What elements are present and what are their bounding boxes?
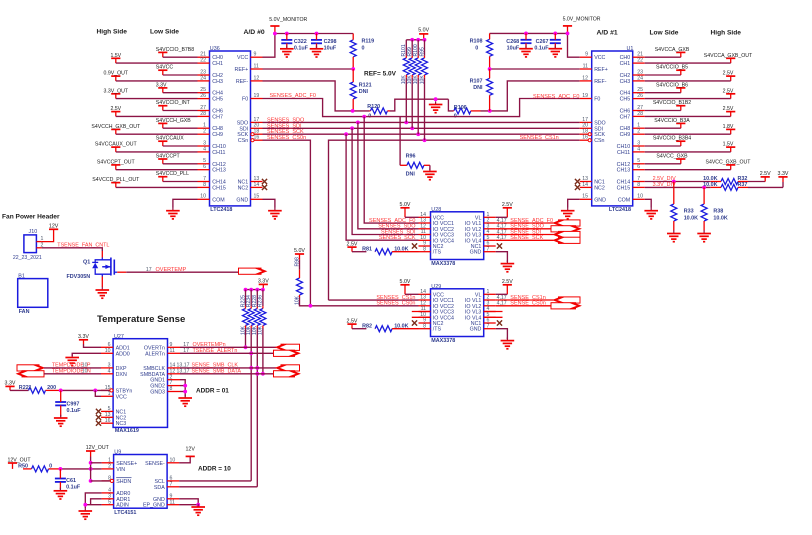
svg-text:Low Side: Low Side	[650, 30, 679, 37]
capacitor C268 10uF	[521, 39, 532, 41]
ground at U36 COM	[172, 208, 174, 211]
svg-text:COM: COM	[618, 197, 630, 203]
off-page connector SENSE_CS1n	[559, 297, 581, 303]
junction tie R95	[423, 38, 427, 42]
svg-text:R107: R107	[470, 79, 483, 85]
wire R221 to STBYn	[61, 389, 110, 391]
svg-text:C298: C298	[324, 39, 337, 45]
svg-text:CH15: CH15	[617, 185, 631, 191]
svg-text:S4VCCA_GXB: S4VCCA_GXB	[655, 47, 690, 53]
resistor R234 10K	[250, 290, 252, 307]
svg-text:MAX1619: MAX1619	[115, 428, 139, 434]
svg-text:22_23_2021: 22_23_2021	[13, 255, 42, 261]
wire Q1 source to ground	[101, 277, 103, 288]
off-page connector OVERTEMPn	[281, 344, 300, 350]
resistor R225 10K	[245, 290, 247, 307]
svg-text:REF-: REF-	[236, 79, 249, 85]
junction OVERTEMPn pullup	[244, 345, 248, 349]
wire 3.3V_OUT to U36 CH5	[116, 98, 198, 100]
svg-text:COM: COM	[212, 197, 224, 203]
svg-text:10uF: 10uF	[324, 46, 337, 52]
svg-text:10K: 10K	[294, 295, 300, 305]
svg-text:A/D #1: A/D #1	[597, 30, 618, 37]
off-page connector SENSE_SDO	[551, 226, 576, 232]
svg-text:CH9: CH9	[212, 132, 223, 138]
power tap S4VCC_GXB_OUT U1 CH13	[726, 164, 735, 166]
power tap 1.8V U1 CH9	[726, 128, 735, 130]
wire SENSE_CS0n to off-page (U29)	[496, 305, 554, 307]
svg-text:3.3V: 3.3V	[5, 381, 16, 387]
svg-text:VCC: VCC	[116, 394, 127, 400]
svg-text:S4VCCAUX: S4VCCAUX	[156, 136, 185, 142]
no-connect X NC1 U28	[497, 243, 502, 248]
wire S4VCC_GXB_OUT U1	[645, 169, 731, 171]
power tap 2.5V U1 CH5	[726, 93, 735, 95]
off-page connector SENSE_SCK	[559, 237, 581, 243]
resistor R101 10K pull-up	[405, 40, 407, 56]
wire SCL to riser	[179, 480, 251, 482]
svg-text:SENSES_CS1n: SENSES_CS1n	[520, 135, 559, 141]
svg-text:High Side: High Side	[711, 30, 742, 37]
junction SMB_DATA pullup	[261, 372, 265, 376]
junction ground tap REF-	[434, 97, 438, 101]
fan B1 box	[18, 279, 48, 308]
svg-text:2.5V: 2.5V	[723, 106, 734, 112]
power tap 2.5V U1 CH3	[726, 75, 735, 77]
power symbol 3.3V (U27 ADD1)	[79, 339, 88, 341]
wire U27 GND tie	[180, 380, 185, 397]
wire ADD0 to ground	[72, 353, 101, 356]
power tap S4VCCAUX_OUT to CH11 U36	[111, 146, 120, 148]
svg-text:MAX3378: MAX3378	[431, 261, 455, 267]
svg-text:CSn: CSn	[594, 138, 604, 144]
svg-text:CH7: CH7	[620, 114, 631, 120]
power tap S4VCCIO_B6 U1 CH4	[676, 87, 685, 89]
svg-text:CH1: CH1	[620, 61, 631, 67]
svg-text:200: 200	[47, 385, 56, 391]
no-connect X NC1 U1	[575, 179, 580, 184]
no-connect X NC2 U1	[575, 185, 580, 190]
svg-text:R100: R100	[413, 44, 419, 56]
off-page connector SENSE_SMB_DATA	[274, 371, 295, 377]
svg-text:CH3: CH3	[620, 79, 631, 85]
junction R121 bottom	[351, 109, 355, 113]
wire 12V_OUT riser U9	[90, 457, 92, 481]
power tap S4VCCIO_B3A U1 CH8	[676, 122, 685, 124]
svg-text:CH11: CH11	[212, 150, 225, 156]
svg-text:REF-: REF-	[594, 79, 607, 85]
junction EP_GND	[196, 503, 200, 507]
power tap 2.5V to CH7 U36	[111, 111, 120, 113]
power tap S4VCCIO_B3B4 U1 CH10	[676, 140, 685, 142]
resistor R120 0	[370, 108, 387, 114]
wire U36 COM to ground	[173, 199, 198, 207]
junction C322 top	[285, 32, 289, 36]
svg-text:EP_GND: EP_GND	[143, 503, 165, 509]
wire S4VCCD_PLL to U36 CH14	[163, 181, 198, 183]
wire 2.5V_DIV row	[645, 181, 711, 183]
svg-text:S4VCCIO_B3B4: S4VCCIO_B3B4	[653, 136, 691, 142]
svg-text:S4VCCPT: S4VCCPT	[156, 154, 181, 160]
svg-text:2.5V: 2.5V	[347, 318, 358, 324]
svg-text:R50: R50	[18, 463, 28, 469]
wire SENSES_CS1n into U29	[329, 299, 419, 301]
wire R120 to ground tap	[390, 99, 448, 111]
resistor R99 10K pull-up	[411, 40, 413, 56]
svg-text:R98: R98	[294, 257, 300, 267]
junction REF+ R119/R121	[351, 67, 355, 71]
svg-text:S4VCCIO_B7B8: S4VCCIO_B7B8	[156, 47, 194, 53]
power tap S4VCCIO_INT to CH6 U36	[158, 105, 167, 107]
svg-text:LTC2418: LTC2418	[609, 207, 631, 213]
wire S4VCCPT to U36 CH12	[163, 163, 198, 165]
wire bare stub pin11 U29	[412, 311, 431, 313]
svg-text:3.3V: 3.3V	[258, 279, 269, 285]
wire S4VCCIO_B1B2 U1	[645, 110, 681, 112]
wire VCC riser U27	[95, 390, 101, 396]
wire S4VCCIO_B7B8 to U36 CH0	[163, 56, 198, 58]
wire SHDN from riser	[91, 480, 110, 482]
ground at C997	[60, 415, 62, 418]
svg-text:ADIN: ADIN	[116, 503, 129, 509]
svg-text:S4VCC: S4VCC	[156, 65, 174, 71]
resistor R96 DNI	[399, 117, 401, 166]
power symbol 5.0V_MONITOR (left)	[270, 25, 279, 27]
svg-text:NC2: NC2	[594, 185, 605, 191]
svg-text:CH13: CH13	[212, 168, 226, 174]
wire R228/SDA vertical	[256, 328, 258, 487]
svg-text:OVERTEMP: OVERTEMP	[156, 267, 187, 273]
wire S4VCCA_GXB_OUT U1	[645, 62, 731, 64]
svg-text:1.5V: 1.5V	[723, 142, 734, 148]
off-page connector SENSE_CS0n	[551, 303, 576, 309]
wire S4VCC to U36 CH2	[163, 74, 198, 76]
resistor R106 0	[454, 108, 471, 114]
power symbol 5.0V (U29 VCC)	[400, 284, 409, 286]
wire S4VCCA_GXB U1	[645, 56, 681, 58]
power symbol 2.5V (R32)	[761, 176, 770, 178]
power tap 3.3V_OUT to CH5 U36	[111, 93, 120, 95]
op-amp U36 box (LTC2418 A/D #0)	[210, 51, 251, 206]
wire OVERTEMPn row	[180, 346, 276, 348]
junction SMB_DATA tap	[255, 372, 259, 376]
ground at U27 GND	[184, 395, 186, 398]
svg-text:SENSES_CS0n: SENSES_CS0n	[267, 135, 306, 141]
junction SMB_CLK pullup	[255, 366, 259, 370]
junction C298 top	[315, 32, 319, 36]
junction tie R225	[244, 288, 248, 292]
svg-text:R121: R121	[359, 83, 372, 89]
svg-text:R38: R38	[713, 208, 723, 214]
ground at R96	[429, 168, 431, 171]
wire bare stub pin4 U29	[484, 311, 503, 313]
junction SMB_CLK tap	[249, 366, 253, 370]
power tap S4VCCPT to CH12 U36	[158, 158, 167, 160]
junction VIN riser	[89, 467, 93, 471]
junction SDO pullup	[404, 121, 408, 125]
svg-text:C997: C997	[67, 401, 80, 407]
wire U1 GND to ground	[568, 199, 580, 207]
wire 17 OVERTEMP	[117, 271, 126, 273]
svg-text:NC2: NC2	[238, 185, 249, 191]
power tap 2.5V U1 CH7	[726, 111, 735, 113]
svg-text:GND: GND	[470, 327, 482, 333]
junction SHDN riser	[89, 479, 93, 483]
svg-text:F0: F0	[242, 97, 248, 103]
power symbol 2.5V (U29 VL)	[503, 284, 512, 286]
ground at C298	[316, 46, 318, 49]
junction tie R234	[249, 288, 253, 292]
svg-text:U27: U27	[114, 334, 124, 340]
svg-text:R37: R37	[738, 182, 748, 188]
svg-text:Q1: Q1	[83, 260, 90, 266]
transistor Q1 FDV305N	[110, 258, 112, 276]
svg-text:R221: R221	[19, 385, 32, 391]
svg-text:SENSE_SCK: SENSE_SCK	[510, 235, 543, 241]
svg-text:GND: GND	[236, 197, 248, 203]
power symbol 3.3V (R221)	[5, 385, 14, 387]
power symbol 12V_OUT (R50)	[8, 462, 17, 464]
svg-text:3.3V_OUT: 3.3V_OUT	[104, 88, 129, 94]
svg-text:REF= 5.0V: REF= 5.0V	[364, 71, 397, 78]
svg-text:0.1uF: 0.1uF	[534, 46, 549, 52]
pin bubble CSn U36	[251, 139, 254, 142]
resistor R107 DNI	[487, 78, 493, 95]
wire S4VCCAUX_OUT to U36 CH11	[116, 151, 198, 153]
resistor R81 10.0K	[352, 251, 366, 253]
svg-text:/TS: /TS	[433, 250, 442, 256]
svg-text:12V_OUT: 12V_OUT	[86, 445, 110, 451]
svg-text:R33: R33	[684, 208, 694, 214]
off-page connector TEMPDIODE_N	[22, 371, 44, 377]
wire 5.0V_MONITOR rail (left)	[275, 33, 353, 35]
ground at U9 GND	[197, 504, 199, 507]
svg-text:CH5: CH5	[212, 97, 223, 103]
power symbol 3.3V (R37)	[778, 176, 787, 178]
power tap 1.5V to CH1 U36	[111, 57, 120, 59]
svg-text:13,17: 13,17	[177, 369, 190, 375]
resistor R236 10K	[262, 290, 264, 307]
junction R38 top	[702, 186, 706, 190]
wire 2.5V to U28 VL	[496, 216, 508, 218]
wire U36 VCC riser to 5.0V_MONITOR rail	[263, 34, 275, 58]
wire 2.5V U1	[645, 115, 731, 117]
wire Q1 drain lead	[101, 251, 103, 258]
svg-text:1.8V: 1.8V	[723, 124, 734, 130]
power symbol 2.5V (R81)	[347, 246, 356, 248]
svg-text:CH3: CH3	[212, 79, 223, 85]
wire SENSE_SCK to off-page (U28)	[496, 239, 554, 241]
wire SENSE_SDI to off-page (U28)	[496, 234, 554, 236]
ground at Q1	[101, 287, 103, 290]
svg-text:VIN: VIN	[116, 467, 125, 473]
svg-text:J10: J10	[29, 229, 38, 235]
svg-text:VCC: VCC	[594, 55, 605, 61]
wire 2.5V to U29 VL	[496, 293, 508, 295]
off-page connector TEMPDIODE_P	[17, 365, 39, 371]
wire SENSE_ADC_F0 to off-page (U28)	[496, 222, 554, 224]
connector J10 box	[24, 235, 37, 253]
wire tempsense tie bar	[246, 289, 264, 291]
ground at U1 COM	[650, 208, 652, 211]
wire pullup tie bar	[406, 39, 423, 41]
wire 3.3V to U36 CH4	[163, 92, 198, 94]
pin bubble SHDN U9	[110, 479, 113, 482]
svg-text:DXN: DXN	[116, 372, 127, 378]
junction ADIN tie	[83, 503, 87, 507]
junction C268 top	[524, 32, 528, 36]
power tap 1.5V U1 CH11	[726, 146, 735, 148]
svg-text:2.5V: 2.5V	[723, 88, 734, 94]
wire 3.3V_DIV row	[645, 186, 711, 188]
wire TSENSE_ALERTn row	[180, 352, 276, 354]
ground at U28 GND	[506, 260, 508, 263]
wire 5.0V to U29 VCC	[405, 293, 419, 295]
wire EP_GND tie	[179, 504, 198, 506]
power tap S4VCC to CH2 U36	[158, 69, 167, 71]
junction CS1n pullup	[423, 138, 427, 142]
power symbol 12V (U9)	[186, 455, 195, 457]
svg-text:S4VCCIO_INT: S4VCCIO_INT	[156, 100, 191, 106]
resistor R95 10K pull-up	[424, 40, 426, 56]
wire S4VCCIO_INT to U36 CH6	[163, 110, 198, 112]
wire SENSES_SCK row	[263, 133, 580, 135]
wire R96 to ground	[429, 165, 431, 170]
svg-text:SENSE-: SENSE-	[145, 461, 165, 467]
svg-text:Low Side: Low Side	[150, 29, 179, 36]
junction rail-right corner	[566, 32, 570, 36]
svg-text:2.5V: 2.5V	[502, 202, 513, 208]
svg-text:CSn: CSn	[238, 138, 248, 144]
svg-text:S4VCCA_GXB_OUT: S4VCCA_GXB_OUT	[704, 53, 753, 59]
svg-text:SENSE_SMB_DATA: SENSE_SMB_DATA	[192, 369, 242, 375]
svg-text:NC3: NC3	[116, 421, 127, 427]
junction U27 GND3	[183, 390, 187, 394]
ground at C61	[59, 488, 61, 491]
svg-text:S4VCCIO_B1B2: S4VCCIO_B1B2	[653, 100, 691, 106]
svg-text:S4VCC_GXB: S4VCC_GXB	[656, 154, 688, 160]
svg-text:C267: C267	[536, 39, 549, 45]
svg-text:CH15: CH15	[212, 185, 226, 191]
wire S4VCCIO_B3B4 U1	[645, 145, 681, 147]
svg-text:DNI: DNI	[406, 172, 416, 178]
no-connect X NC2 U29	[412, 320, 417, 325]
off-page connector SENSE_SDI	[559, 231, 581, 237]
svg-text:R81: R81	[362, 247, 372, 253]
off-page connector SENSE_SMB_CLK	[281, 365, 300, 371]
wire S4VCCIO_B5 U1	[645, 74, 681, 76]
ground at C268	[525, 46, 527, 49]
svg-text:0: 0	[475, 45, 478, 51]
svg-text:SDA: SDA	[154, 485, 165, 491]
wire R106 to U1 REF-	[481, 81, 580, 111]
svg-text:S4VCCIO_B5: S4VCCIO_B5	[656, 65, 688, 71]
pin bubble SCK U36	[251, 133, 254, 136]
svg-text:R119: R119	[362, 39, 375, 45]
svg-text:17: 17	[183, 348, 189, 354]
wire S4VCCH_GXB to U36 CH8	[163, 127, 198, 129]
junction tie R236	[261, 288, 265, 292]
svg-text:S4VCCPT_OUT: S4VCCPT_OUT	[97, 159, 136, 165]
wire bare stub pin10 U29	[412, 316, 431, 318]
svg-text:LTC2418: LTC2418	[210, 207, 232, 213]
no-connect X NC3 U27	[96, 421, 101, 426]
junction SDI pullup	[410, 126, 414, 130]
wire SENSE+ from riser	[91, 462, 102, 464]
svg-text:SENSE_CS0n: SENSE_CS0n	[510, 301, 545, 307]
junction R107 bottom	[488, 109, 492, 113]
pin bubble STBYn U27	[110, 389, 113, 392]
power tap S4VCCPT_OUT to CH13 U36	[111, 164, 120, 166]
svg-text:VCC: VCC	[237, 55, 248, 61]
svg-text:REF+: REF+	[594, 67, 608, 73]
svg-text:5.0V: 5.0V	[400, 279, 411, 285]
junction tie R228	[255, 288, 259, 292]
svg-text:10: 10	[82, 369, 88, 375]
wire TEMPDIODE_N	[44, 373, 101, 375]
svg-text:ALERTn: ALERTn	[145, 351, 165, 357]
wire SDA to riser	[179, 486, 257, 488]
wire S4VCCIO_B6 U1	[645, 92, 681, 94]
wire ADR0 tie	[85, 493, 101, 508]
junction ADC_F0 drop to U28	[362, 115, 366, 119]
junction C61 tap	[59, 467, 63, 471]
resistor R108 0	[487, 39, 493, 56]
power symbol 2.5V (U28 VL)	[503, 207, 512, 209]
power symbol 5.0V (R98)	[295, 253, 304, 255]
svg-text:TSENSE_ALERTn: TSENSE_ALERTn	[193, 348, 238, 354]
wire TSENSE_FAN_CNTL	[42, 248, 103, 251]
wire SENSES_CS1n to U1	[329, 140, 580, 300]
wire S4VCCPT_OUT to U36 CH13	[116, 169, 198, 171]
op-amp U1 box (LTC2418 A/D #1)	[592, 51, 633, 206]
svg-text:ADD0: ADD0	[116, 351, 130, 357]
power tap 3.3V to CH4 U36	[158, 87, 167, 89]
ground at C267	[554, 46, 556, 49]
svg-text:CH5: CH5	[620, 97, 631, 103]
svg-text:5.0V: 5.0V	[418, 28, 429, 34]
svg-text:10uF: 10uF	[507, 46, 520, 52]
svg-text:5.0V: 5.0V	[400, 202, 411, 208]
svg-text:3.3V: 3.3V	[78, 334, 89, 340]
resistor R82 10.0K	[352, 328, 366, 330]
power tap S4VCCD_PLL_OUT to CH15 U36	[111, 182, 120, 184]
svg-text:10K: 10K	[419, 75, 425, 85]
junction ALERTn pullup	[249, 351, 253, 355]
ground at C322	[286, 46, 288, 49]
junction VCC riser	[93, 389, 97, 393]
junction SCK drop	[344, 132, 348, 136]
svg-text:U28: U28	[431, 207, 441, 213]
wire U9 GND tie	[179, 499, 198, 506]
svg-text:FDV305N: FDV305N	[67, 274, 91, 280]
svg-text:CH7: CH7	[212, 114, 223, 120]
svg-text:U9: U9	[114, 449, 121, 455]
svg-text:0.1uF: 0.1uF	[67, 408, 82, 414]
junction SDI drop	[350, 126, 354, 130]
svg-text:10K: 10K	[413, 75, 419, 85]
power symbol 2.5V (R82)	[347, 323, 356, 325]
ground at R33	[673, 230, 675, 233]
svg-text:CH13: CH13	[617, 168, 631, 174]
svg-text:5.0V_MONITOR: 5.0V_MONITOR	[269, 17, 307, 23]
svg-text:0: 0	[362, 45, 365, 51]
svg-text:F0: F0	[594, 97, 600, 103]
wire SENSE_SMB_DATA row	[180, 373, 276, 375]
svg-text:4,17: 4,17	[497, 301, 507, 307]
svg-text:S4VCC_GXB_OUT: S4VCC_GXB_OUT	[706, 159, 752, 165]
svg-text:0.9V_OUT: 0.9V_OUT	[104, 71, 129, 77]
